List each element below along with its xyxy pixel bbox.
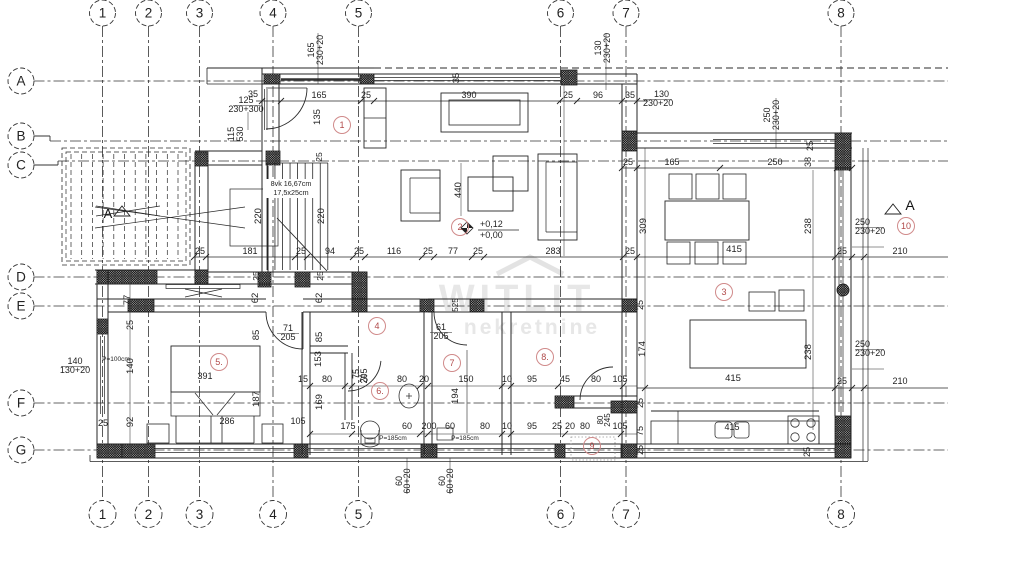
svg-text:25: 25: [296, 246, 306, 256]
svg-text:9: 9: [589, 441, 594, 451]
armchair squares room 3: [749, 292, 775, 311]
svg-text:415: 415: [725, 373, 741, 384]
svg-text:7: 7: [622, 6, 630, 21]
pier corridor door E: [470, 299, 484, 312]
extension line x564: [563, 84, 565, 256]
roof overhang dashed line: [374, 67, 948, 69]
svg-text:210: 210: [892, 376, 907, 386]
pier south 3: [421, 444, 437, 458]
grid row E: [8, 293, 948, 319]
svg-text:415: 415: [724, 422, 739, 432]
svg-text:2: 2: [457, 222, 462, 232]
svg-text:1: 1: [99, 6, 107, 21]
svg-text:F: F: [17, 396, 25, 411]
svg-text:35: 35: [451, 73, 462, 84]
pier south 5: [621, 444, 632, 458]
svg-text:80: 80: [580, 421, 590, 431]
dimension 115/530 vertical: [226, 126, 245, 141]
sofa room 2 right: [538, 154, 577, 240]
grid row A: [8, 68, 948, 94]
svg-text:25: 25: [361, 90, 371, 100]
svg-text:G: G: [16, 443, 27, 458]
pier stair NW: [195, 152, 208, 166]
room marker 3: [716, 284, 733, 301]
pier west wall: [97, 319, 108, 334]
grid column 3: [186, 0, 213, 528]
svg-text:75: 75: [635, 426, 645, 436]
terrace east edge lines: [862, 148, 864, 461]
svg-text:5: 5: [355, 507, 363, 522]
pier stair NE: [266, 151, 280, 165]
wall: north wall rooms 1-2: [262, 74, 637, 84]
svg-text:25: 25: [837, 376, 847, 386]
pier north-wall 1: [264, 74, 280, 84]
svg-text:80: 80: [591, 374, 601, 384]
wall: row D terrace south wall: [95, 270, 208, 284]
svg-text:25: 25: [635, 445, 645, 455]
dimension 125/230+300: [228, 95, 263, 130]
room marker 1: [334, 117, 351, 134]
stairs treads: [267, 163, 328, 270]
stairs landing rect: [230, 189, 278, 246]
svg-text:3: 3: [196, 507, 204, 522]
door label 75/205 WC: [351, 368, 369, 383]
svg-text:150: 150: [458, 374, 473, 384]
wall: middle wall y299-312 west part: [97, 299, 266, 312]
room marker 8: [537, 349, 554, 366]
grid row B: [8, 123, 948, 149]
dimension east terrace upper: [837, 246, 908, 256]
dimension line top y101: [256, 98, 648, 104]
dimension 165/230+20 vertical: [306, 33, 325, 84]
column east wall: [837, 284, 849, 296]
svg-text:A: A: [16, 74, 25, 89]
svg-text:8: 8: [837, 507, 845, 522]
svg-text:17,5x25cm: 17,5x25cm: [273, 188, 308, 197]
shower divider room7: [466, 350, 468, 433]
svg-text:135: 135: [312, 109, 323, 125]
svg-text:1: 1: [339, 120, 344, 130]
grid column 2: [135, 0, 162, 528]
wall: south wall of entry zone y272: [208, 272, 367, 284]
nightstand right: [262, 424, 283, 443]
window north wall room3: [713, 139, 835, 141]
sideboard room 2 top: [441, 93, 528, 132]
svg-text:25: 25: [315, 271, 325, 281]
pier middle wall b: [352, 299, 367, 312]
windows south wall: [155, 448, 294, 450]
pier stub corridor full: [352, 272, 367, 312]
grid row G: [8, 437, 948, 463]
svg-text:10: 10: [901, 221, 911, 231]
pier south 1: [97, 444, 155, 458]
svg-text:A: A: [905, 197, 915, 213]
door label 61/205: [430, 322, 452, 341]
wall: west wall room 1: [262, 68, 279, 166]
svg-text:95: 95: [527, 374, 537, 384]
pier grid7 low: [622, 401, 637, 413]
svg-text:E: E: [16, 299, 25, 314]
svg-text:10: 10: [502, 421, 512, 431]
svg-text:25: 25: [837, 246, 847, 256]
svg-text:nekretnine: nekretnine: [464, 316, 600, 339]
svg-text:85: 85: [251, 330, 262, 341]
pier south 2: [294, 444, 308, 458]
svg-text:80: 80: [480, 421, 490, 431]
wall: WC west door wall: [345, 353, 352, 420]
dimension line bedroom x130: [129, 284, 131, 444]
svg-text:85: 85: [314, 332, 325, 343]
window 115/530 west wall room1: [264, 89, 266, 130]
bed room 5: [171, 346, 260, 443]
svg-text:D: D: [16, 270, 26, 285]
room marker 2: [452, 219, 469, 236]
armchair room 2: [401, 170, 440, 221]
grid row C: [8, 152, 948, 178]
kitchen sink: [715, 422, 749, 438]
pier grid7 mid: [622, 299, 637, 312]
svg-text:25: 25: [563, 90, 573, 100]
pier row D: [108, 270, 157, 284]
svg-text:525: 525: [451, 298, 460, 312]
svg-text:175: 175: [340, 421, 355, 431]
pier grid7 bottom: [622, 131, 637, 151]
pier room8 NE: [622, 299, 637, 312]
dimension 250/230+20 vertical room3: [762, 98, 781, 148]
svg-text:1: 1: [99, 507, 107, 522]
svg-text:7: 7: [622, 507, 630, 522]
svg-text:5: 5: [355, 6, 363, 21]
svg-text:245: 245: [603, 413, 612, 427]
kitchen counter: [651, 411, 819, 444]
svg-text:38: 38: [803, 157, 813, 167]
svg-text:153: 153: [313, 351, 324, 367]
door label 61/205 right: [0, 0, 1, 1]
pier NE corner: [835, 133, 851, 170]
svg-text:C: C: [16, 158, 26, 173]
grid column 8: [828, 0, 855, 528]
door arc bedroom 5: [266, 312, 303, 349]
wall: room7/8 divider: [502, 312, 511, 455]
dimension row corridor y386: [298, 374, 637, 389]
svg-text:B: B: [16, 129, 25, 144]
svg-text:250: 250: [767, 157, 782, 167]
svg-text:80: 80: [397, 374, 407, 384]
svg-text:2: 2: [145, 507, 153, 522]
grid column 4: [260, 0, 287, 528]
section marker A right: [885, 197, 915, 214]
svg-text:6: 6: [557, 507, 565, 522]
svg-text:45: 45: [560, 374, 570, 384]
wall: room8 south wall / loggia: [555, 396, 637, 408]
wardrobe room 1: [364, 88, 386, 148]
door arc room8 entry: [825, 261, 827, 263]
wall: stub corridor west: [352, 287, 367, 299]
room marker 6: [372, 383, 389, 400]
svg-text:309: 309: [638, 218, 649, 234]
pier west wall corner D: [97, 270, 108, 284]
ground line below south wall: [90, 461, 868, 463]
svg-text:25: 25: [552, 421, 562, 431]
svg-text:3: 3: [721, 287, 726, 297]
terrace hatch top-left: [62, 148, 190, 265]
svg-text:6.: 6.: [376, 386, 384, 396]
svg-text:8vk 16,67cm: 8vk 16,67cm: [271, 179, 312, 188]
pier corridor door W: [420, 299, 434, 312]
dining table room 3: [665, 201, 749, 240]
svg-text:96: 96: [593, 90, 603, 100]
kitchen stove: [788, 416, 819, 444]
svg-text:165: 165: [664, 157, 679, 167]
svg-text:530: 530: [235, 126, 245, 141]
svg-text:5.: 5.: [215, 357, 223, 367]
svg-text:20: 20: [419, 374, 429, 384]
dimension line room3 vertical x645: [644, 148, 646, 458]
window east wall upper: [838, 170, 840, 285]
svg-text:+0,12: +0,12: [480, 219, 503, 229]
svg-text:20: 20: [565, 421, 575, 431]
svg-text:25: 25: [423, 246, 433, 256]
wall: stair block north wall: [195, 151, 262, 165]
wall: middle wall y299-312 segment 2: [303, 299, 420, 312]
wall: room6/7 divider: [424, 312, 432, 455]
svg-text:2: 2: [145, 6, 153, 21]
wall: stair block west wall: [195, 152, 208, 284]
svg-text:25: 25: [251, 271, 261, 281]
coffee table room 2 a: [468, 177, 513, 211]
svg-text:283: 283: [545, 246, 560, 256]
pier south 4: [555, 444, 565, 458]
door label 71/205: [277, 323, 299, 342]
svg-text:105: 105: [290, 416, 305, 426]
window east wall lower: [838, 292, 840, 412]
svg-text:238: 238: [803, 218, 814, 234]
coffee table room 2 b: [493, 156, 528, 191]
svg-text:200: 200: [421, 421, 436, 431]
svg-text:25: 25: [195, 246, 205, 256]
svg-text:230+20: 230+20: [602, 33, 612, 63]
door arc entry room1: [266, 88, 307, 129]
pier north-wall 2: [360, 74, 374, 84]
dining chairs top: [669, 174, 692, 199]
svg-text:25: 25: [354, 246, 364, 256]
room marker 5: [211, 354, 228, 371]
svg-text:94: 94: [325, 246, 335, 256]
svg-text:4: 4: [374, 321, 379, 331]
wall: north wall room 3: [630, 133, 852, 148]
svg-text:8.: 8.: [541, 352, 549, 362]
svg-text:238: 238: [803, 344, 814, 360]
svg-text:390: 390: [461, 90, 476, 100]
room marker 9: [584, 438, 601, 455]
watermark logo: [497, 257, 563, 274]
stairs direction diagonal: [277, 218, 327, 271]
room marker 10: [898, 218, 915, 235]
svg-text:80: 80: [322, 374, 332, 384]
svg-text:25: 25: [473, 246, 483, 256]
svg-text:220: 220: [316, 208, 327, 224]
dimension texts top row: [248, 89, 635, 100]
dimension row y255: [191, 246, 948, 260]
svg-text:10: 10: [502, 374, 512, 384]
svg-text:6: 6: [557, 6, 565, 21]
dimension room3 top row y168: [619, 157, 855, 171]
svg-text:62: 62: [314, 293, 325, 304]
svg-text:116: 116: [387, 246, 401, 256]
svg-text:8: 8: [837, 6, 845, 21]
loggia dotted area: [571, 437, 615, 460]
svg-text:140: 140: [125, 358, 136, 374]
nightstand left: [147, 424, 169, 443]
svg-text:77: 77: [122, 295, 133, 306]
svg-text:P=185cm: P=185cm: [379, 435, 407, 442]
svg-text:25: 25: [98, 418, 108, 428]
svg-text:25: 25: [625, 246, 635, 256]
svg-text:210: 210: [892, 246, 907, 256]
svg-text:181: 181: [242, 246, 257, 256]
grid row F: [8, 390, 948, 416]
svg-text:25: 25: [635, 300, 645, 310]
stairs label: [263, 179, 319, 198]
entry door leaf north wall: [281, 78, 360, 81]
svg-text:25: 25: [314, 152, 324, 162]
section cut lines through stairs: [95, 207, 245, 228]
grid column 5: [345, 0, 372, 528]
window west wall bedroom: [100, 336, 102, 414]
svg-text:286: 286: [219, 416, 234, 426]
section marker A left: [96, 206, 160, 221]
pier middle wall a: [128, 299, 154, 312]
wall: bedroom east wall: [302, 312, 310, 455]
wc toilet room6: [361, 421, 380, 447]
svg-text:415: 415: [726, 244, 742, 255]
door arc room 7: [434, 312, 467, 345]
svg-text:92: 92: [125, 417, 136, 428]
grid column 6: [547, 0, 574, 528]
svg-text:174: 174: [637, 341, 648, 357]
svg-text:230+20: 230+20: [315, 35, 325, 65]
dimension line room3 vertical x813: [812, 170, 814, 430]
svg-text:169: 169: [314, 394, 325, 410]
pier SE corner: [835, 416, 851, 458]
canopy line above entry: [207, 67, 262, 69]
svg-text:4: 4: [269, 507, 277, 522]
pier loggia E: [611, 401, 632, 413]
grid column 7: [613, 0, 640, 528]
svg-text:P=185cm: P=185cm: [451, 435, 479, 442]
dimension 130/230+20 top: [643, 89, 673, 108]
pier entry zone 1: [295, 272, 310, 287]
wall: divider stairs / room1: [262, 166, 268, 287]
svg-text:75: 75: [358, 374, 368, 384]
pier divider bottom: [258, 272, 271, 287]
wall: grid7 lower vertical: [622, 84, 637, 444]
pier loggia W: [555, 396, 574, 408]
window: north wall glazing: [374, 77, 560, 79]
svg-text:105: 105: [612, 421, 627, 431]
wall: south wall building: [97, 444, 851, 458]
svg-text:25: 25: [802, 447, 812, 457]
svg-text:105: 105: [612, 374, 627, 384]
dimension east terrace lower: [637, 376, 948, 391]
bedroom dimensions: [98, 371, 306, 428]
washbasin room6: [399, 384, 419, 408]
sofa room 3: [690, 320, 806, 368]
corridor closet: [166, 285, 240, 298]
svg-text:25: 25: [635, 398, 645, 408]
svg-text:+0,00: +0,00: [480, 230, 503, 240]
svg-text:25: 25: [805, 141, 815, 151]
pier entry zone 2: [352, 272, 367, 287]
svg-text:95: 95: [527, 421, 537, 431]
grid row D: [8, 264, 948, 290]
washer room7: [437, 428, 453, 440]
svg-text:3: 3: [196, 6, 204, 21]
pier grid7 bottom2: [622, 444, 637, 458]
grid column 1: [89, 0, 116, 528]
dimension 130/230+20 vertical grid7: [593, 33, 612, 90]
wall: WC north wall: [310, 346, 348, 353]
svg-text:7: 7: [449, 358, 454, 368]
svg-text:194: 194: [450, 388, 461, 404]
svg-text:187: 187: [251, 391, 262, 407]
svg-text:25: 25: [623, 157, 633, 167]
wall: grid7 vertical upper: [622, 74, 637, 151]
room marker 4: [369, 318, 386, 335]
svg-text:391: 391: [197, 371, 212, 381]
svg-text:440: 440: [453, 182, 464, 198]
wall: east wall: [835, 133, 851, 458]
svg-text:4: 4: [269, 6, 277, 21]
dimension row y431: [307, 421, 637, 437]
svg-text:220: 220: [253, 208, 264, 224]
wall: middle wall corridor part: [428, 299, 637, 312]
svg-text:60: 60: [402, 421, 412, 431]
svg-text:62: 62: [250, 293, 261, 304]
svg-text:35: 35: [625, 90, 635, 100]
pier stair SW: [195, 270, 208, 284]
bottom small dims: [394, 468, 455, 493]
top wall outer line at entry: [262, 67, 374, 69]
wall: west wall lower: [97, 270, 108, 458]
door arc loggia room9: [580, 367, 613, 400]
door arc WC room6: [348, 361, 381, 391]
pier north-wall 3: [561, 70, 577, 85]
svg-text:60: 60: [445, 421, 455, 431]
svg-text:165: 165: [311, 90, 326, 100]
room marker 7: [444, 355, 461, 372]
dining chairs bottom: [667, 242, 690, 264]
svg-text:15: 15: [298, 374, 308, 384]
svg-text:77: 77: [448, 246, 458, 256]
level marker: [461, 219, 519, 240]
